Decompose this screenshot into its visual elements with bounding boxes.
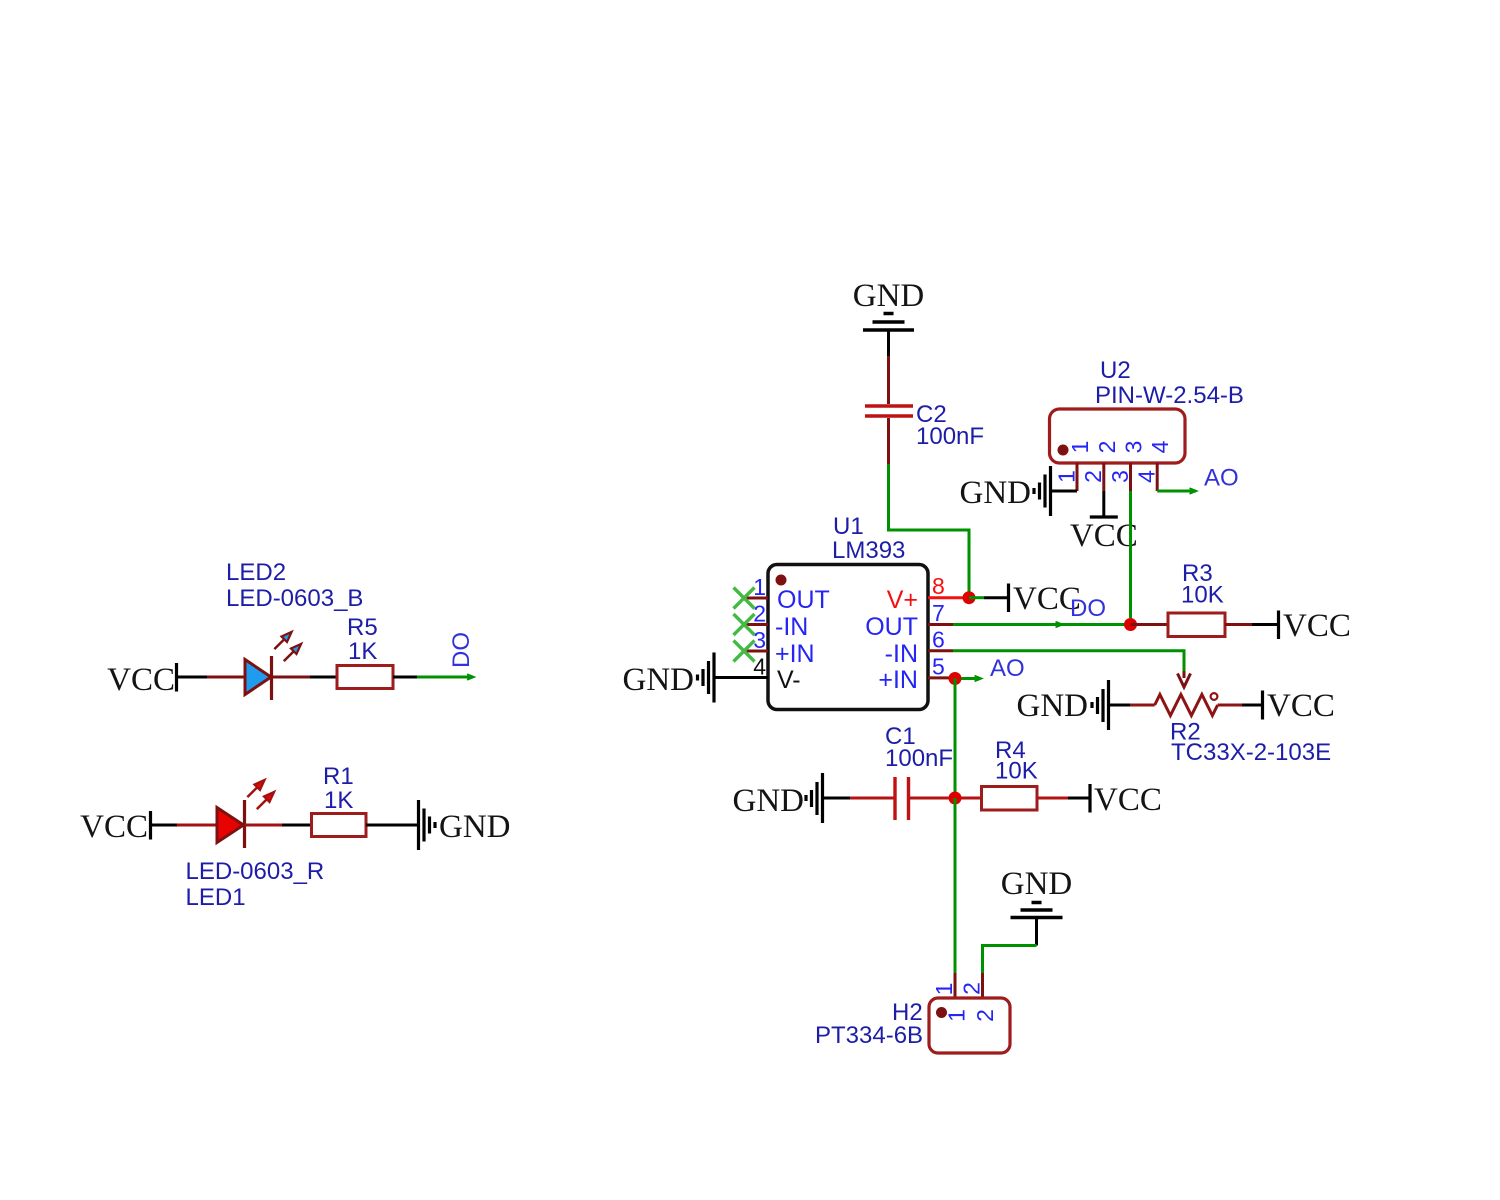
svg-text:PT334-6B: PT334-6B [815, 1022, 923, 1049]
U1 pin 5 stub [928, 676, 955, 679]
svg-text:AO: AO [1204, 465, 1239, 492]
svg-text:VCC: VCC [1094, 782, 1162, 818]
svg-text:6: 6 [932, 627, 945, 653]
svg-text:R1: R1 [323, 763, 354, 790]
svg-text:LED1: LED1 [186, 884, 246, 911]
H2 pin 1 stub [954, 973, 957, 998]
svg-text:7: 7 [932, 600, 945, 626]
svg-text:GND: GND [1017, 688, 1089, 724]
net label DO (rotated) with anchor arrow [448, 632, 475, 680]
power flag VCC (U2 pin2, downward) [1070, 517, 1138, 554]
power flag VCC (R4) [1090, 782, 1162, 818]
wire VCC to LED2 [177, 676, 208, 679]
wire junction to VCC flag [969, 596, 984, 599]
svg-text:DO: DO [1070, 595, 1106, 622]
svg-text:1: 1 [1067, 441, 1093, 454]
svg-text:3: 3 [1107, 470, 1133, 483]
svg-text:GND: GND [623, 662, 695, 698]
svg-text:GND: GND [853, 278, 925, 314]
U1 pin 3 stub (no-connect) [734, 627, 769, 662]
svg-text:OUT: OUT [865, 613, 918, 641]
junction at DO / U2 pin3 / R3 [1124, 618, 1137, 631]
capacitor C1 100nF [850, 777, 949, 820]
ground flag GND (C1 left) [733, 773, 823, 823]
svg-text:1: 1 [1053, 470, 1079, 483]
svg-text:V-: V- [777, 666, 801, 694]
wire C1 junction down to H2 pin1 (green) [954, 798, 957, 973]
resistor R1 [312, 814, 367, 837]
svg-text:-IN: -IN [885, 640, 918, 668]
resistor R4 [982, 787, 1038, 811]
resistor R5 [337, 666, 393, 689]
svg-text:DO: DO [448, 632, 475, 668]
svg-text:OUT: OUT [777, 586, 830, 614]
svg-text:VCC: VCC [80, 809, 148, 845]
junction at C1 / R4 / pin5 net [949, 792, 962, 805]
ground flag GND (H2, bottom) [1001, 866, 1073, 918]
wire U1 pin7 to R3 (green, net DO) [953, 623, 1131, 626]
resistor R3 [1168, 613, 1225, 637]
svg-text:2: 2 [1080, 470, 1106, 483]
svg-text:+IN: +IN [878, 666, 918, 694]
potentiometer R2 [1130, 693, 1242, 715]
U2 pin 2 stub [1102, 463, 1105, 491]
wire U1 pin6 to R2 wiper (green) [953, 651, 1184, 671]
power flag VCC (LED2 anode) [107, 662, 176, 698]
svg-text:VCC: VCC [1070, 518, 1138, 554]
wire GND to R2 [1109, 704, 1131, 707]
wire U2 pin1 to GND [1051, 490, 1078, 493]
svg-text:2: 2 [958, 982, 984, 995]
svg-text:GND: GND [1001, 866, 1073, 902]
H2 pin 2 stub [981, 973, 984, 998]
svg-text:10K: 10K [1181, 582, 1224, 609]
R4 left stub [961, 797, 982, 800]
wire U2 pin3 to DO junction (green) [1129, 491, 1132, 618]
power flag VCC (U1 pin8) [1009, 581, 1081, 617]
wire R3 to VCC [1252, 623, 1279, 626]
svg-text:8: 8 [932, 573, 945, 599]
wire U2 pin2 to VCC [1102, 491, 1105, 516]
junction at U1 pin 8 [963, 591, 976, 604]
svg-text:1K: 1K [324, 787, 353, 814]
capacitor C2 100nF [865, 356, 913, 464]
wire LED1 to R1 [282, 824, 312, 827]
wire LED2 to R5 [310, 676, 337, 679]
svg-text:VCC: VCC [1267, 688, 1335, 724]
svg-text:LED2: LED2 [226, 559, 286, 586]
R3 left stub [1131, 623, 1169, 626]
svg-text:GND: GND [733, 783, 805, 819]
svg-text:1: 1 [943, 1009, 969, 1022]
wire R4 to VCC [1068, 797, 1090, 800]
phototransistor H2 body [929, 998, 1010, 1053]
LED LED2 (blue) [207, 629, 310, 700]
svg-text:100nF: 100nF [916, 423, 984, 450]
wire GND to C2 [887, 330, 890, 356]
svg-text:1: 1 [931, 983, 957, 996]
svg-text:R5: R5 [347, 614, 378, 641]
svg-text:3: 3 [753, 627, 766, 653]
svg-text:VCC: VCC [1283, 608, 1351, 644]
wire pin5 down to C1 junction (green) [954, 679, 957, 799]
svg-text:2: 2 [753, 601, 766, 627]
wire VCC to LED1 [151, 824, 178, 827]
svg-text:+IN: +IN [775, 640, 815, 668]
wire R5 to DO [393, 676, 417, 679]
wire GND down (black) [1035, 918, 1038, 946]
svg-text:GND: GND [439, 809, 511, 845]
U1 pin 7 stub [928, 623, 953, 626]
wire U2 pin4 to AO (green) [1157, 488, 1196, 494]
U2 pin 1 stub [1076, 463, 1079, 491]
svg-text:U1: U1 [833, 513, 864, 540]
svg-text:4: 4 [1147, 440, 1173, 453]
net label DO anchor arrow [1056, 622, 1063, 628]
ground flag GND (U1 pin4) [623, 653, 715, 703]
svg-text:3: 3 [1121, 441, 1147, 454]
U1 pin 8 wire (red, V+) [928, 596, 969, 599]
wire R2 to VCC [1242, 704, 1263, 707]
ground flag GND (top, C2) [853, 278, 925, 330]
R2 wiper arrow [1178, 671, 1191, 687]
svg-text:5: 5 [932, 654, 945, 680]
wire GND to H2 pin2 (green) [983, 946, 1037, 974]
wire C2 to U1 pin8 junction (green) [889, 464, 970, 597]
svg-text:LM393: LM393 [832, 537, 905, 564]
svg-text:2: 2 [972, 1009, 998, 1022]
svg-text:10K: 10K [995, 758, 1038, 785]
svg-text:TC33X-2-103E: TC33X-2-103E [1171, 739, 1331, 766]
wire GND to U1 pin4 [714, 676, 768, 679]
svg-text:GND: GND [960, 475, 1032, 511]
svg-text:LED-0603_R: LED-0603_R [186, 858, 325, 885]
svg-text:U2: U2 [1100, 357, 1131, 384]
U2 pin 4 stub [1156, 463, 1159, 491]
svg-text:VCC: VCC [107, 662, 175, 698]
power flag VCC (LED1 anode) [80, 809, 150, 845]
U2 pin 3 stub [1129, 463, 1132, 491]
R3 right stub [1225, 623, 1252, 626]
U1 pin 1 stub (no-connect) [734, 574, 769, 609]
ground flag GND (R2 left) [1017, 680, 1109, 730]
svg-text:1: 1 [753, 574, 766, 600]
power flag VCC (R3) [1279, 608, 1351, 644]
svg-text:4: 4 [1134, 470, 1160, 483]
svg-text:AO: AO [990, 655, 1025, 682]
ground flag GND (U2 pin1) [960, 466, 1051, 516]
svg-text:4: 4 [753, 654, 766, 680]
op-amp U1 LM393 body [768, 565, 928, 710]
svg-text:-IN: -IN [775, 613, 808, 641]
header U2 body [1050, 409, 1186, 463]
U1 pin 2 stub (no-connect) [734, 601, 769, 636]
svg-text:V+: V+ [887, 586, 918, 614]
svg-text:1K: 1K [348, 638, 377, 665]
U1 pin 6 stub [928, 649, 953, 652]
wire pin5 to AO (green) [961, 676, 982, 682]
svg-text:100nF: 100nF [885, 745, 953, 772]
power flag VCC (R2 right) [1263, 688, 1335, 724]
wire GND to C1 [823, 797, 851, 800]
LED LED1 (red) [177, 777, 282, 848]
R4 right stub [1037, 797, 1068, 800]
wire R1 to GND [366, 824, 419, 827]
ground flag GND (LED1 cathode) [419, 800, 511, 850]
wire net DO (green) [417, 676, 473, 679]
svg-text:PIN-W-2.54-B: PIN-W-2.54-B [1095, 382, 1244, 409]
junction at U1 pin 5 [949, 672, 962, 685]
svg-text:2: 2 [1094, 441, 1120, 454]
svg-text:LED-0603_B: LED-0603_B [226, 585, 363, 612]
